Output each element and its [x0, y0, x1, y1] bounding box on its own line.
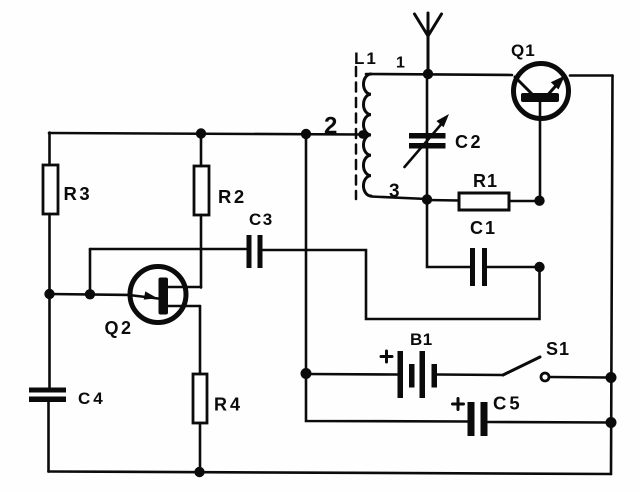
svg-text:R4: R4: [214, 395, 243, 415]
svg-text:C3: C3: [249, 210, 274, 229]
svg-text:B1: B1: [410, 330, 433, 349]
node 3 junction: [422, 194, 432, 204]
node right rail lower junction: [606, 417, 617, 428]
svg-text:C2: C2: [455, 132, 483, 152]
node bottom rail junction: [194, 467, 204, 477]
svg-text:Q1: Q1: [511, 41, 536, 60]
wire C5 right branch: [488, 421, 611, 424]
node antenna junction: [423, 69, 433, 79]
svg-text:S1: S1: [546, 339, 570, 359]
node left base junction: [44, 289, 54, 299]
svg-text:R1: R1: [473, 171, 498, 191]
wire C1 left branch: [427, 200, 470, 267]
wire Q2 emitter to R4: [199, 306, 202, 374]
node R2 top junction: [196, 128, 206, 138]
node mid column top junction: [301, 129, 311, 139]
wire left rail upper: [48, 133, 51, 166]
transistor Q1: [514, 64, 569, 119]
svg-text:R3: R3: [64, 183, 93, 204]
wire node3 to R1: [427, 199, 459, 202]
wire node1 to node3 vertical through C2: [426, 74, 429, 199]
svg-text:R2: R2: [218, 186, 247, 207]
resistor R2: [194, 166, 209, 215]
wire switch to right rail: [550, 376, 608, 379]
wire bottom rail: [49, 472, 612, 475]
capacitor C3: [247, 235, 263, 268]
resistor R3: [43, 165, 58, 214]
wire Q1 base lead: [539, 102, 542, 196]
transistor Q2: [129, 267, 201, 323]
node R1 base junction: [534, 196, 544, 206]
wire R2 to Q2 collector: [200, 215, 203, 288]
label C5 plus: [453, 399, 464, 410]
wire left rail middle: [48, 214, 51, 388]
wire R4 to bottom rail: [199, 423, 202, 472]
svg-text:C5: C5: [493, 393, 523, 414]
svg-text:C4: C4: [78, 389, 106, 408]
capacitor C1: [470, 248, 487, 286]
node battery junction: [301, 368, 312, 379]
node base wire junction: [85, 289, 95, 299]
resistor R4: [193, 374, 207, 423]
switch S1: [503, 357, 549, 381]
node 2 tap dot: [358, 130, 366, 138]
wire R2 branch: [200, 134, 203, 167]
wire top rail: [49, 133, 361, 135]
wire Q2 base wire: [50, 294, 130, 295]
svg-text:Q2: Q2: [105, 318, 134, 338]
wire battery left: [306, 373, 398, 376]
wire Q1 collector to right rail: [570, 74, 613, 77]
resistor R1: [459, 193, 509, 210]
node C1 junction: [534, 262, 544, 272]
capacitor C2 (variable): [405, 114, 450, 167]
wire battery to switch: [437, 373, 503, 376]
svg-text:L1: L1: [354, 49, 378, 68]
wire C3 left to drop: [90, 248, 247, 251]
wire mid column: [305, 134, 308, 373]
label B1 plus: [381, 351, 392, 362]
wire C1 right branch: [487, 266, 540, 269]
wire L1 bottom to node 3: [371, 197, 427, 200]
svg-text:C1: C1: [470, 218, 497, 238]
battery B1: [398, 351, 438, 398]
inductor L1: [356, 67, 371, 199]
wire left rail lower: [47, 402, 50, 472]
wire C3 drop to base node: [89, 249, 92, 294]
node right rail upper junction: [606, 372, 617, 383]
capacitor C5: [468, 402, 488, 436]
wire R1 to Q1 base node: [509, 200, 540, 203]
wire C5 left branch: [306, 374, 468, 422]
wire feedback loop to C3: [263, 250, 540, 319]
wire right rail: [611, 76, 613, 475]
svg-text:1: 1: [396, 55, 405, 72]
capacitor C4: [29, 388, 66, 403]
wire node1 top: [366, 74, 512, 75]
antenna: [415, 13, 442, 74]
